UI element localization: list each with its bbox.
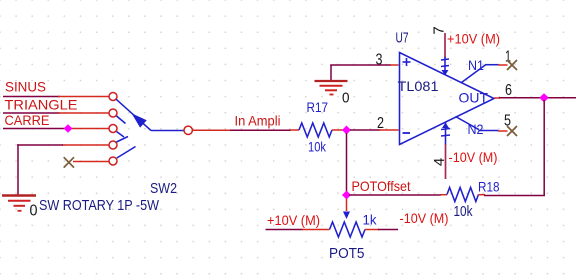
svg-text:10k: 10k bbox=[454, 203, 473, 220]
svg-text:OUT: OUT bbox=[459, 90, 489, 106]
wire feedback vertical bbox=[543, 100, 545, 196]
svg-text:POTOffset: POTOffset bbox=[352, 178, 411, 194]
junction on CARRE wire bbox=[64, 124, 73, 133]
svg-text:In Ampli: In Ampli bbox=[235, 113, 281, 129]
svg-text:+10V (M): +10V (M) bbox=[267, 212, 320, 228]
pin 5 N2 stub bbox=[456, 117, 508, 132]
node junction R17 / pin2 / offset bbox=[342, 126, 351, 135]
pin 4 V- wire bbox=[441, 123, 450, 180]
svg-text:-10V (M): -10V (M) bbox=[400, 210, 449, 226]
svg-text:TL081: TL081 bbox=[398, 78, 439, 94]
wire R17 right pin to junction bbox=[332, 129, 347, 131]
svg-text:CARRE: CARRE bbox=[5, 112, 50, 128]
no-connect X pin 5 bbox=[507, 126, 517, 136]
svg-text:SW ROTARY 1P -5W: SW ROTARY 1P -5W bbox=[39, 197, 160, 214]
potentiometer POT5 wiper bbox=[343, 199, 350, 219]
ground (left) bbox=[2, 196, 36, 211]
svg-text:+10V (M): +10V (M) bbox=[447, 31, 500, 47]
switch SW2 contact circles bbox=[109, 93, 117, 166]
wire SINUS bbox=[3, 96, 109, 98]
svg-text:R17: R17 bbox=[307, 99, 329, 115]
svg-text:0: 0 bbox=[342, 89, 350, 106]
wire +10V to pot left bbox=[266, 229, 330, 231]
op-amp U7 triangle bbox=[400, 53, 495, 145]
svg-text:2: 2 bbox=[377, 115, 384, 132]
svg-text:-10V (M): -10V (M) bbox=[449, 149, 498, 165]
switch SW2 wiper arrow bbox=[132, 113, 147, 127]
pin 1 N1 stub bbox=[462, 65, 508, 83]
no-connect X on switch bbox=[64, 157, 74, 167]
node junction POTOffset bbox=[342, 191, 351, 200]
wire TRIANGLE bbox=[3, 112, 109, 114]
resistor R17 bbox=[299, 123, 332, 137]
svg-text:1k: 1k bbox=[363, 212, 378, 228]
svg-text:TRIANGLE: TRIANGLE bbox=[5, 97, 78, 113]
switch SW2 common contact circle bbox=[184, 126, 192, 134]
op-amp - input mark bbox=[403, 132, 411, 134]
svg-text:POT5: POT5 bbox=[329, 245, 365, 262]
wire R18 right to feedback corner bbox=[479, 194, 546, 197]
wire common to In Ampli to R17 bbox=[193, 129, 300, 131]
node junction output / feedback bbox=[539, 93, 549, 102]
wire CARRE bbox=[3, 128, 109, 130]
svg-text:SW2: SW2 bbox=[150, 180, 177, 197]
wire junction to op-amp pin 2 bbox=[350, 129, 399, 131]
op-amp + input mark bbox=[403, 58, 411, 66]
svg-text:SINUS: SINUS bbox=[5, 79, 46, 95]
svg-text:7: 7 bbox=[430, 26, 447, 34]
switch SW2 wiper shaft bbox=[116, 99, 184, 158]
no-connect X pin 1 bbox=[507, 60, 517, 70]
wire POTOffset to R18 bbox=[349, 194, 447, 196]
pin 7 V+ wire bbox=[441, 33, 449, 76]
wire from no-connect X to contact 5 bbox=[73, 161, 109, 163]
wire junction down to POTOffset node bbox=[346, 133, 348, 192]
wire to ground from contact 4 bbox=[17, 144, 109, 194]
svg-text:U7: U7 bbox=[396, 30, 409, 47]
svg-text:N2: N2 bbox=[468, 121, 484, 137]
svg-text:N1: N1 bbox=[468, 57, 484, 73]
svg-text:4: 4 bbox=[431, 158, 448, 166]
wire ground to op-amp pin 3 bbox=[330, 64, 398, 66]
svg-text:6: 6 bbox=[505, 82, 512, 99]
svg-text:R18: R18 bbox=[478, 179, 500, 195]
svg-text:0: 0 bbox=[30, 203, 38, 220]
svg-text:10k: 10k bbox=[308, 139, 327, 155]
svg-text:3: 3 bbox=[376, 52, 383, 69]
resistor R18 bbox=[447, 188, 478, 202]
potentiometer POT5 body bbox=[330, 222, 365, 237]
pin 6 output wire bbox=[494, 97, 576, 99]
wire pot right to -10V bbox=[365, 229, 398, 231]
ground (pin 3) bbox=[315, 65, 348, 95]
